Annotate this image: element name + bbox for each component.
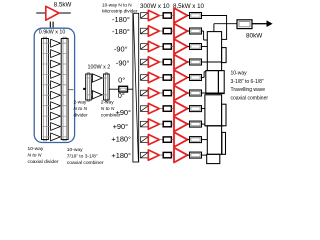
svg-text:300W x 10: 300W x 10 — [140, 3, 170, 10]
svg-text:0°: 0° — [118, 75, 125, 84]
svg-text:7/16” to 3-1/8”: 7/16” to 3-1/8” — [67, 154, 98, 160]
svg-text:10-way: 10-way — [231, 71, 248, 77]
svg-text:N to N: N to N — [101, 106, 115, 112]
svg-text:divider: divider — [74, 112, 89, 118]
svg-text:10-way: 10-way — [28, 146, 44, 152]
svg-text:80kW: 80kW — [246, 33, 263, 40]
svg-text:coaxial combiner: coaxial combiner — [231, 95, 269, 101]
svg-text:+90°: +90° — [116, 108, 132, 117]
svg-text:coaxial combiner: coaxial combiner — [67, 160, 104, 166]
svg-text:Microstrip divider: Microstrip divider — [102, 8, 138, 13]
svg-text:0°: 0° — [118, 91, 125, 100]
svg-text:0.9kW x 10: 0.9kW x 10 — [39, 30, 66, 36]
svg-text:+90°: +90° — [113, 122, 129, 131]
svg-text:2-way: 2-way — [74, 100, 87, 106]
svg-text:10-way N to N: 10-way N to N — [102, 2, 132, 7]
svg-text:100W x 2: 100W x 2 — [88, 65, 111, 71]
svg-text:10-way: 10-way — [67, 147, 83, 153]
svg-text:N to N: N to N — [28, 153, 42, 159]
svg-text:coaxial divider: coaxial divider — [28, 159, 59, 165]
svg-text:-90°: -90° — [114, 45, 128, 54]
svg-text:N to N: N to N — [74, 106, 88, 112]
svg-text:+180°: +180° — [111, 151, 131, 160]
svg-text:-90°: -90° — [116, 58, 130, 67]
svg-text:-180°: -180° — [112, 15, 130, 24]
svg-text:2-way: 2-way — [101, 100, 114, 106]
svg-text:+180°: +180° — [111, 135, 131, 144]
svg-text:-180°: -180° — [112, 27, 130, 36]
svg-text:3-1/8” to 6-1/8”: 3-1/8” to 6-1/8” — [231, 79, 264, 85]
svg-text:8.5kW x 10: 8.5kW x 10 — [173, 3, 205, 10]
svg-text:Travelling wave: Travelling wave — [231, 87, 266, 93]
svg-text:8.5kW: 8.5kW — [54, 1, 72, 8]
